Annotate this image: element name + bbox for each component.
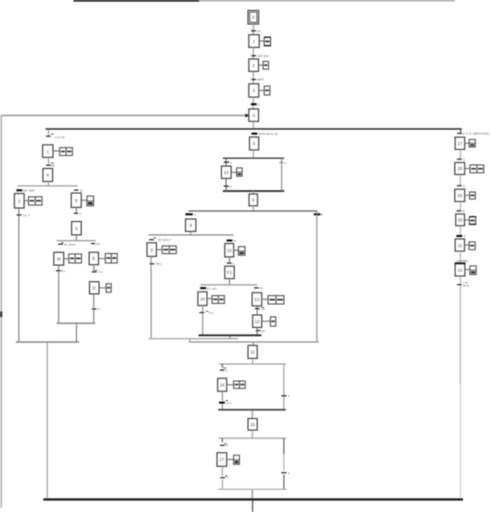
svg-text:11: 11 [458,243,463,248]
wire step26 down b [58,272,59,323]
wire step6-div1 [253,206,254,211]
transition t14 [200,286,217,290]
svg-text:C3 ↗: C3 ↗ [23,213,31,217]
action box step28 [99,284,111,293]
wire spine 1-2 [253,47,254,59]
wire step17 down b [222,480,223,490]
transition t27 [46,163,55,168]
action box step12 [262,317,276,326]
transition t40 [457,209,465,213]
left return wire [1,116,2,508]
svg-text:18: 18 [457,166,462,171]
convergence line CL1 [16,341,79,342]
wire bottom tail [252,501,253,512]
svg-text:#b ta: #b ta [463,284,469,288]
step 16 [248,419,257,431]
wire d5 right mid [283,454,284,470]
step 28 [90,282,100,294]
convergence line C2a [149,338,239,339]
svg-text:p: p [230,160,232,164]
svg-text:a: a [288,394,290,398]
svg-text:12: 12 [255,319,260,324]
divergence line D5 [219,438,287,439]
svg-text:an_abcd: an_abcd [64,242,76,246]
svg-text:-2D/-1DV: -2D/-1DV [257,54,270,58]
wire step10 down a [202,306,203,312]
svg-text:19: 19 [457,193,462,198]
transition t15 [199,311,213,315]
svg-text:A: A [98,307,100,311]
wire step25-div [76,235,77,240]
step 36 [455,262,466,276]
transition t17 [255,307,265,311]
wire left col top [48,130,49,136]
transition t18 [256,329,265,333]
wire step5 down [253,150,254,157]
initial step 0 [248,11,259,25]
transition t31 [74,212,82,216]
svg-text:p4: p4 [262,307,266,311]
transition t26 [46,134,65,139]
convergence line CL2 [57,323,96,324]
svg-text:BY MYLT: BY MYLT [158,238,171,242]
svg-text:M: M [57,256,61,261]
step 32 [455,163,465,175]
transition t42 [457,284,462,285]
top border black segment [74,0,200,2]
wire left col mid [48,157,49,164]
wire d4 right [283,364,284,409]
wire d5 left stub [222,438,223,442]
step 13 [225,244,234,257]
wire step17 down [222,466,223,476]
step 11 [248,345,257,358]
step 33 [455,189,465,201]
svg-text:P s: P s [209,311,214,315]
wire step22 down [48,182,49,186]
wire step23 down b [18,216,19,341]
svg-text:14: 14 [224,170,229,175]
step 10 [198,292,207,306]
wire spine 0-1 [253,24,254,35]
svg-text:1: 1 [258,103,260,107]
wire bypass-step6 [253,191,254,194]
svg-text:13: 13 [227,248,232,253]
wire spine 4-div [253,121,254,128]
transition t41 [456,234,466,238]
step 3 [249,84,259,97]
transition t24 [220,476,228,481]
action box step14 [231,168,242,176]
action box step26 [64,254,82,263]
wire main left drop [47,343,48,499]
svg-text:s: s [233,261,235,265]
action box step2 [259,61,269,69]
transition t5 [252,132,278,136]
transition t23 [220,443,228,447]
action box step32 [465,165,484,173]
action box step10 [207,296,224,304]
action box step33 [465,192,476,199]
bypass branch bottom line [223,190,284,192]
wire cl2 drop [76,324,77,342]
action box step27 [99,254,118,264]
svg-text:5: 5 [226,368,228,372]
transition t11 [150,262,163,266]
transition t25 [281,471,290,475]
wire rc 6 [460,276,461,284]
transition t33 [56,269,66,273]
step 1 [249,35,259,48]
svg-text:p p p ip: p p p ip [55,135,65,139]
bypass left wire upper [226,158,227,166]
step 13b [252,293,262,306]
wire step15 down [222,391,223,400]
action box step3 [259,86,270,95]
wire rc long lower [460,384,461,498]
svg-text:-4: -4 [462,209,465,213]
step 5 [250,137,259,150]
convergence line C3a [199,334,262,336]
svg-text:a: a [288,471,290,475]
wire spine 3-4 [253,97,254,109]
wire rc 3 [460,202,461,211]
divergence line DL1 [17,185,78,186]
step 26 [54,252,64,265]
wire d4 left stub [222,364,223,368]
svg-text:p4: p4 [261,329,265,333]
wire step13b-12 [257,306,258,315]
wire step13-f1 a [229,257,230,263]
svg-text:a s!: a s! [226,401,231,405]
bypass right wire [281,158,282,191]
svg-text:NC: NC [96,242,101,246]
convergence line C1a [189,341,319,342]
transition t35 [92,270,103,274]
wire step9 down b [151,265,152,338]
action box step13 [234,247,245,256]
transition t22 [281,394,290,398]
step 34 [456,214,465,226]
top border gray segment [199,0,455,1]
divergence line DL2 [57,240,96,241]
step 12 [253,315,262,327]
step 35 [455,239,464,251]
svg-text:a.b: a.b [257,29,262,33]
transition t10 [149,238,171,242]
wire d5 right lower [283,475,284,490]
svg-text:B n: B n [61,269,66,273]
transition t3 [251,78,264,82]
transition t12 [227,239,237,243]
wire rc 2 [460,175,461,186]
svg-text:11: 11 [250,350,255,355]
transition t13 [227,261,235,265]
divergence line D0 [45,128,461,130]
wire step24-25 [76,207,77,212]
wire step23 down a [18,208,19,214]
svg-text:A: A [321,213,323,217]
action box step31 [465,140,476,148]
wire rc long [460,286,461,384]
step F1 [225,266,234,278]
wire step9 down a [151,256,152,263]
action box step24 [81,196,93,206]
transition t32 [58,242,76,246]
step 24 [71,193,81,207]
step 14 [221,166,231,178]
wire step16-div5 [252,430,253,438]
divergence line D1 [189,210,317,211]
svg-text:ta: ta [233,239,236,243]
transition t2 [251,54,269,58]
wire c1a-step11 [253,343,254,346]
action box step9 [156,246,176,254]
svg-text:15: 15 [220,383,225,388]
bypass left wire lower [226,178,227,191]
step 8 [186,219,196,231]
svg-text:16: 16 [250,422,255,427]
svg-text:WTR SP-D-12: WTR SP-D-12 [259,132,278,136]
bypass branch top line [223,158,284,159]
left edge dark mark [0,312,2,318]
action box step23 [24,197,42,205]
arrow wire into step 4 [1,114,249,118]
svg-text:13: 13 [255,297,260,302]
svg-text:-1: -1 [462,157,465,161]
transition t8 [279,161,286,165]
svg-text:-1: -1 [463,234,466,238]
svg-text:p: p [284,161,286,165]
wire right branch D1 [316,211,317,341]
step 2 [249,59,259,71]
wire c3a drop [229,336,230,338]
wire step27-28 [93,265,94,271]
divergence line D4 [219,363,286,364]
wire step26 down a [58,265,59,270]
bottom return line [43,498,463,500]
wire c4a-step16 [252,411,253,419]
svg-text:p: p [230,184,232,188]
svg-text:TB s: TB s [155,262,162,266]
step 22 [43,169,53,182]
wire step15 down b [222,404,223,409]
action box step34 [465,216,477,225]
svg-text:10: 10 [200,296,205,301]
transition t21 [219,400,231,405]
step 6 [249,194,258,206]
svg-text:p: p [80,212,82,216]
wire c5a drop [252,490,253,498]
svg-text:-4: -4 [462,184,465,188]
step 4 [249,109,259,121]
svg-text:D: D [93,286,96,291]
svg-text:7: 7 [227,476,229,480]
divergence line D3 [200,284,257,285]
transition t1 [251,29,261,33]
step 17 [217,453,227,467]
wire c2a drop [189,339,190,341]
svg-text:d5: d5 [51,164,55,168]
transition t20 [220,368,228,373]
step 23 [14,194,24,209]
divergence line D2 [148,234,233,235]
transition t28 [16,189,35,193]
svg-text:12: 12 [458,267,463,272]
svg-text:F1: F1 [227,270,233,275]
wire rc 4 [460,226,461,235]
wire step12 down [257,327,258,334]
svg-text:WP5: WP5 [257,78,264,82]
wire d5 right upper [283,438,284,454]
step 15 [218,378,227,391]
wire step28 down a [93,294,94,308]
wire step8-div2 [190,231,191,234]
svg-text:5: 5 [226,444,228,448]
wire rc 1 [460,149,461,158]
wire step28 down b [93,310,94,323]
transition t16 [254,286,263,290]
action box step17 [227,455,240,464]
transition t7 [224,184,233,188]
transition t4 [251,103,260,107]
step 27 [89,252,98,264]
action box step13b [262,296,284,304]
action box step21 [53,148,72,156]
step 31 [455,137,465,149]
step 21 [43,145,53,158]
wire spine 2-3 [253,71,254,83]
svg-text:EC cart: EC cart [207,286,217,290]
wire rc 5 [460,251,461,262]
svg-text:17: 17 [219,457,224,462]
transition t38 [457,157,465,161]
wire step10 down b [202,314,203,335]
svg-text:ta: ta [260,286,263,290]
transition t34 [91,242,101,246]
action box step1 [259,37,271,47]
transition t36 [92,307,100,311]
step 9 [147,243,156,257]
wire f1-div3 [229,279,230,285]
action box step15 [227,381,246,388]
svg-text:BD YEM: BD YEM [23,189,35,193]
svg-text:20: 20 [458,218,463,223]
transition t39 [457,184,465,188]
transition t19 [314,213,323,217]
action box step36 [465,266,476,275]
svg-text:a. b. b. (AB K/YA/N): a. b. b. (AB K/YA/N) [463,132,489,136]
convergence line C4a [218,409,286,411]
step 25 [72,222,82,235]
convergence line C5a [218,489,286,490]
transition t30 [74,188,83,192]
action box step35 [465,242,476,250]
svg-text:17: 17 [458,141,463,146]
svg-text:C: C [194,213,197,217]
transition t9 [185,213,197,217]
transition t29 [17,213,31,217]
transition t37 [457,132,489,136]
svg-text:P s: P s [98,270,103,274]
transition t6 [224,160,233,164]
wire step11-div4 [252,358,253,363]
svg-text:ta: ta [80,188,83,192]
wire right col top [460,129,461,133]
svg-text:E: E [92,256,95,261]
